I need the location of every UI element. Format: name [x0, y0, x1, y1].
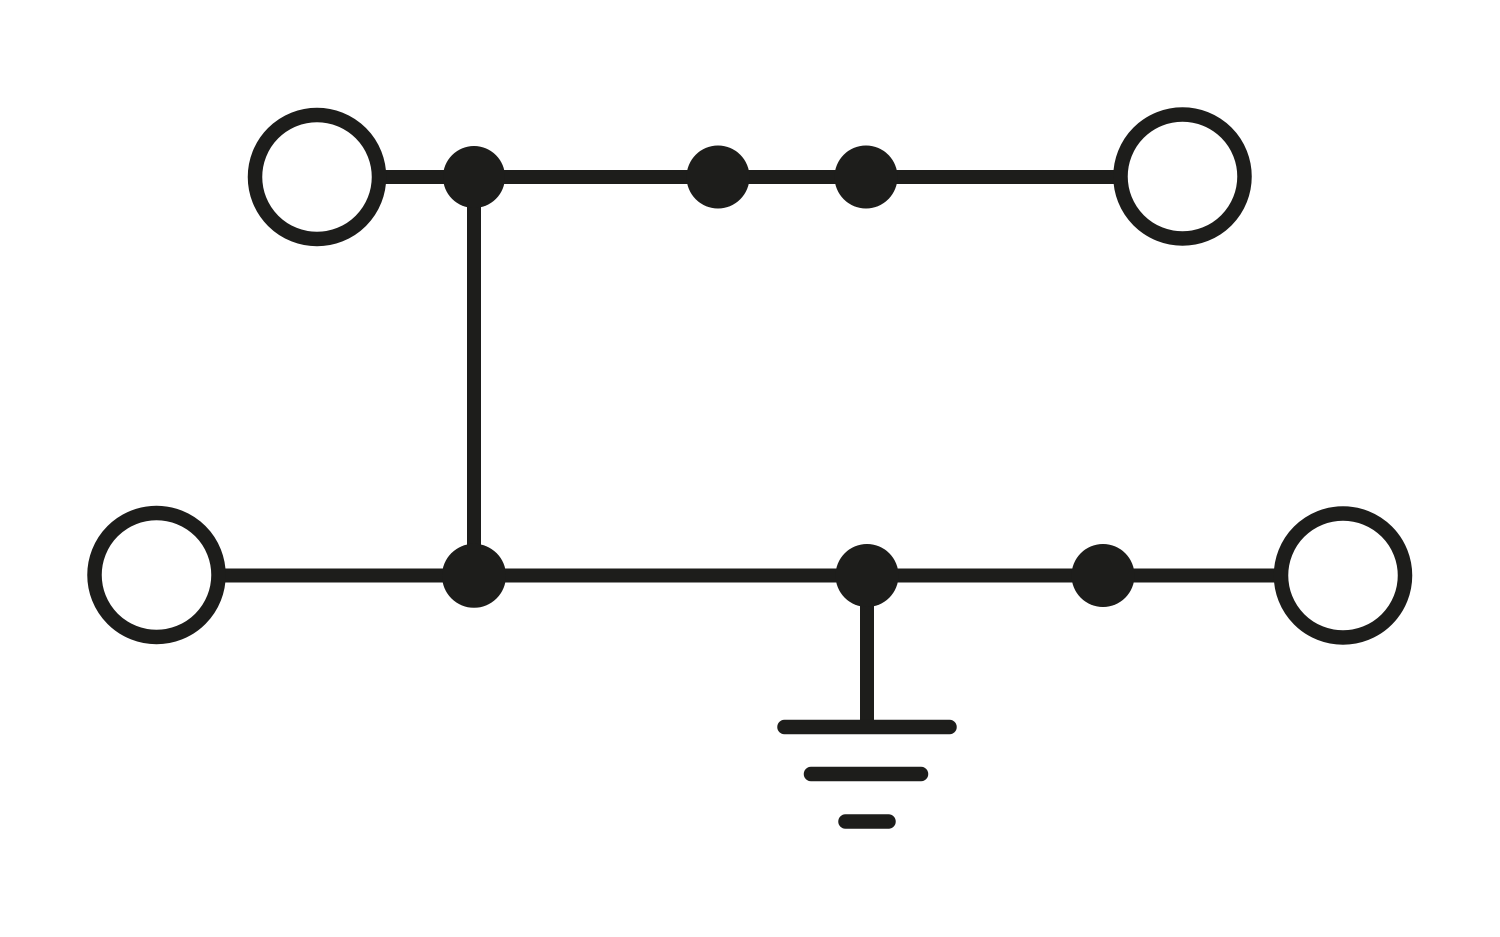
node dot bottom-right: [1072, 544, 1135, 607]
wire top bus: [384, 170, 1115, 184]
ground: [785, 727, 950, 822]
junction dot top-left: [443, 146, 505, 208]
wire ground stem: [860, 576, 874, 728]
node dot top-middle: [687, 146, 750, 209]
terminal circle top-left: [255, 115, 379, 239]
terminal circle top-right: [1121, 115, 1245, 239]
terminal circle bottom-right: [1281, 514, 1405, 638]
junction dot bottom-middle: [836, 544, 899, 607]
wire vertical bridge: [467, 177, 481, 576]
terminal circle bottom-left: [95, 513, 219, 637]
junction dot bottom-left: [442, 544, 506, 608]
node dot top-right: [835, 146, 898, 209]
wire bottom bus: [223, 569, 1276, 583]
